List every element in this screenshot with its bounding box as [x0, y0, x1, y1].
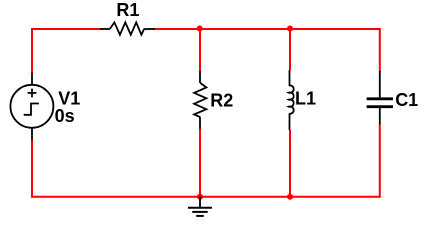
junction bottom ground	[197, 194, 203, 200]
wire bottom	[32, 196, 380, 198]
svg-text:L1: L1	[295, 89, 316, 109]
wire R2 branch upper	[199, 29, 201, 72]
wire right lower	[379, 124, 381, 198]
capacitor C1	[367, 71, 393, 124]
wire L1 branch lower	[289, 130, 291, 197]
svg-text:C1: C1	[395, 90, 418, 110]
wire right upper	[379, 28, 381, 72]
wire left upper	[31, 28, 33, 73]
junction bottom L1	[287, 194, 293, 200]
inductor L1	[289, 70, 294, 130]
wire L1 branch upper	[289, 29, 291, 71]
wire R2 branch lower	[199, 129, 201, 197]
junction top L1	[287, 26, 293, 32]
svg-text:0s: 0s	[55, 106, 75, 126]
ground	[188, 197, 212, 216]
wire top-left segment	[32, 28, 101, 30]
wire top-right segment	[155, 28, 381, 30]
wire left lower	[31, 140, 33, 198]
resistor R2	[194, 71, 206, 129]
resistor R1	[100, 22, 155, 34]
junction top R2	[197, 26, 203, 32]
svg-text:R2: R2	[210, 91, 233, 111]
svg-text:R1: R1	[116, 0, 139, 20]
voltage source V1	[10, 73, 53, 141]
